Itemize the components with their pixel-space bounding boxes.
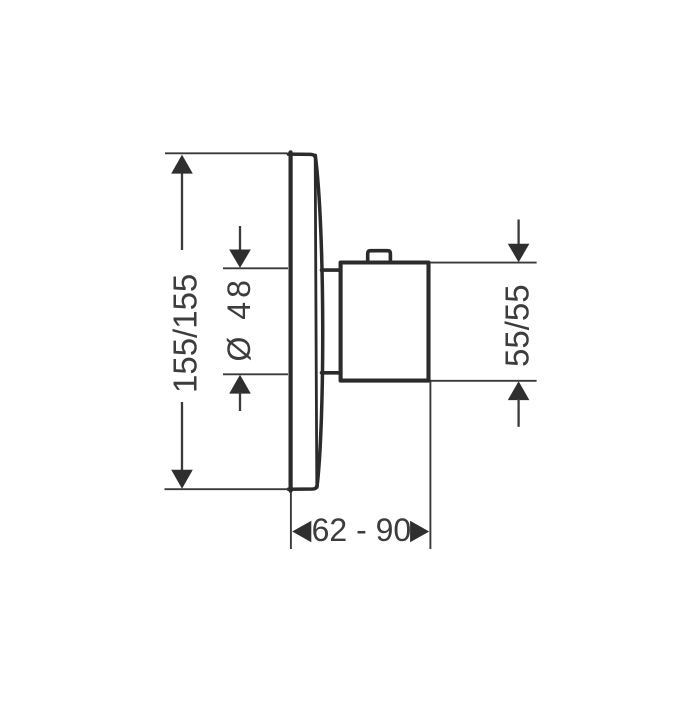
arrowhead down at top ext (55/55) — [508, 244, 530, 262]
stem top edge — [322, 268, 341, 272]
stem bottom edge — [322, 371, 341, 375]
dim line lower segment (155/155) — [181, 402, 183, 472]
plate outer silhouette — [315, 155, 322, 487]
svg-text:55/55: 55/55 — [499, 284, 536, 367]
knob top tab — [368, 251, 391, 263]
knob body — [341, 263, 429, 381]
ext line left (62-90) — [290, 492, 292, 549]
svg-text:62 - 90: 62 - 90 — [312, 512, 412, 548]
dim line upper segment (155/155) — [181, 171, 183, 250]
ext line top (Ø48) — [223, 267, 288, 269]
arrowhead left (62-90) — [292, 521, 311, 542]
dim line below (Ø48) — [239, 392, 241, 411]
ext line bottom (Ø48) — [223, 373, 288, 375]
ext line right (62-90) — [429, 382, 431, 550]
ext line bottom (155/155) — [165, 488, 289, 490]
dim line above (55/55) — [517, 220, 519, 247]
plate top edge — [288, 154, 315, 157]
arrowhead up (155/155) — [171, 155, 193, 174]
ext line bottom (55/55) — [431, 380, 537, 382]
arrowhead down (155/155) — [171, 470, 193, 489]
svg-text:Ø 48: Ø 48 — [221, 276, 257, 361]
plate inner rim line — [315, 157, 317, 487]
ext line top (55/55) — [431, 262, 537, 264]
ext line top (155/155) — [165, 152, 287, 154]
dim line above (Ø48) — [239, 226, 241, 252]
arrowhead right (62-90) — [410, 521, 429, 542]
plate left edge — [289, 152, 293, 490]
dim line below (55/55) — [517, 399, 519, 427]
svg-text:155/155: 155/155 — [167, 274, 204, 393]
plate bottom edge — [288, 486, 317, 489]
arrowhead up at bottom ext (55/55) — [508, 381, 530, 400]
arrowhead up at bottom ext (Ø48) — [229, 375, 251, 394]
arrowhead down at top ext (Ø48) — [229, 250, 251, 268]
